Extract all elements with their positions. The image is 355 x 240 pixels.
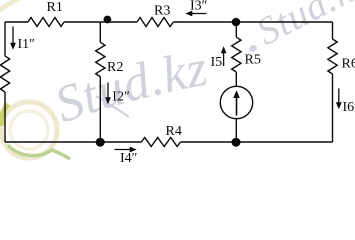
wire: top side, left corner to R1 bbox=[5, 21, 28, 23]
wire: R2 branch, R2 to node D bbox=[99, 77, 101, 142]
resistor R6 bbox=[328, 39, 337, 74]
current arrow I5 bbox=[221, 46, 227, 66]
svg-text:R1: R1 bbox=[47, 0, 63, 15]
current source J1 (circle with up arrow) bbox=[220, 86, 252, 118]
wire: bottom side, R4 to right corner bbox=[181, 141, 333, 143]
wire: right side, R6 to bottom corner bbox=[332, 74, 334, 142]
resistor R2 bbox=[96, 42, 105, 76]
resistor (unlabeled, left branch) bbox=[0, 56, 9, 92]
svg-text:Stud.kz: Stud.kz bbox=[48, 40, 212, 134]
wire: bottom side, left corner to R4 bbox=[5, 141, 142, 143]
current arrow I1" bbox=[10, 27, 16, 50]
wire: R2 branch, node A to R2 bbox=[99, 22, 101, 42]
svg-text:R4: R4 bbox=[166, 124, 182, 139]
svg-text:R3: R3 bbox=[154, 4, 170, 19]
svg-text:I1″: I1″ bbox=[18, 37, 36, 52]
wire: right side, top corner to R6 bbox=[332, 22, 334, 39]
wire: left side, left resistor to bottom corner bbox=[4, 92, 6, 142]
current arrow I3" bbox=[185, 11, 206, 17]
svg-text:Stud.kz: Stud.kz bbox=[250, 0, 355, 54]
wire: current source to node C bbox=[235, 119, 237, 142]
wire: top side, R1 to R3 (through node A) bbox=[64, 21, 137, 23]
node D (junction dot at bottom of R2 branch) bbox=[96, 138, 105, 147]
svg-text:I4″: I4″ bbox=[120, 151, 138, 162]
svg-text:I5: I5 bbox=[211, 55, 223, 70]
svg-text:I3″: I3″ bbox=[190, 0, 208, 14]
current arrow I2" bbox=[105, 83, 111, 105]
current arrow I6' bbox=[336, 89, 342, 110]
current arrow I4" bbox=[115, 147, 137, 153]
resistor R5 bbox=[232, 37, 241, 72]
svg-text:R5: R5 bbox=[245, 52, 261, 67]
svg-text:R2: R2 bbox=[107, 60, 123, 75]
svg-text:I6′: I6′ bbox=[343, 100, 355, 115]
node A (junction dot at top of R2 branch) bbox=[104, 16, 112, 24]
wire: top side, R3 to right corner (through node B) bbox=[174, 21, 333, 23]
resistor R1 bbox=[28, 18, 64, 27]
svg-text:R6: R6 bbox=[342, 57, 355, 72]
resistor R4 bbox=[142, 138, 181, 147]
wire: R5 to current source bbox=[235, 72, 237, 86]
node C (junction dot at bottom of source branch) bbox=[232, 138, 241, 147]
wire: left side, top corner to left resistor bbox=[4, 22, 6, 56]
wire: R5 branch, node B to R5 bbox=[235, 22, 237, 37]
resistor R3 bbox=[137, 18, 174, 27]
svg-text:I2″: I2″ bbox=[112, 89, 130, 104]
node B (junction dot at top of R5 branch) bbox=[232, 18, 241, 27]
